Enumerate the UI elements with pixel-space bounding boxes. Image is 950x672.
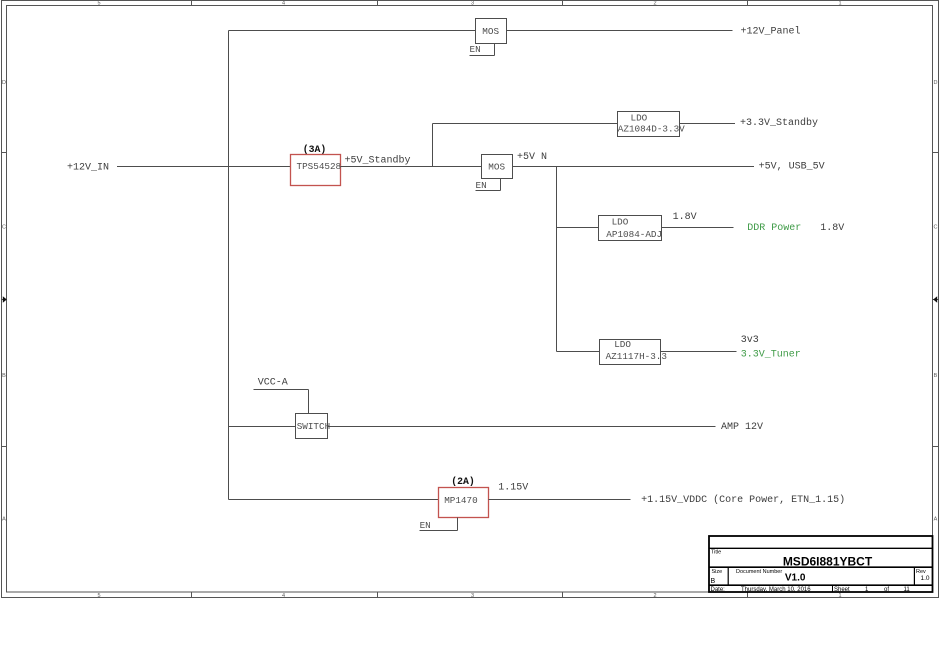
wire MOS 5V output	[513, 166, 755, 168]
zone tick bottom 3/2	[562, 592, 564, 598]
wire AZ1084D output	[680, 123, 736, 125]
wire MOS panel EN stub	[470, 44, 495, 56]
regulator TPS54528	[291, 155, 342, 186]
svg-text:B: B	[2, 373, 6, 379]
svg-text:AP1084-ADJ: AP1084-ADJ	[606, 229, 662, 240]
wire trunk to MOS panel	[229, 30, 476, 32]
svg-text:4: 4	[282, 593, 285, 599]
svg-text:VCC-A: VCC-A	[258, 377, 288, 388]
wire trunk to MP1470	[229, 499, 439, 501]
svg-text:Sheet: Sheet	[834, 587, 850, 593]
svg-text:EN: EN	[420, 520, 431, 531]
svg-text:5: 5	[97, 1, 100, 7]
zone tick bottom 5/4	[191, 592, 193, 598]
wire to LDO AP1084 input	[557, 227, 599, 229]
svg-text:1.8V: 1.8V	[820, 223, 844, 234]
wire SWITCH output	[328, 426, 716, 428]
svg-text:1.15V: 1.15V	[498, 482, 528, 493]
svg-text:+3.3V_Standby: +3.3V_Standby	[740, 117, 818, 129]
svg-text:1.8V: 1.8V	[673, 212, 697, 223]
svg-text:TPS54528: TPS54528	[297, 161, 342, 172]
wire to LDO AZ1117 input	[557, 351, 600, 353]
svg-text:(3A): (3A)	[303, 144, 327, 155]
wire AP1084 output	[662, 227, 734, 229]
wire trunk to SWITCH	[229, 426, 296, 428]
wire MP1470 EN stub	[420, 518, 458, 531]
svg-text:3v3: 3v3	[741, 335, 759, 346]
svg-text:+12V_Panel: +12V_Panel	[741, 26, 801, 38]
svg-text:+5V, USB_5V: +5V, USB_5V	[759, 161, 825, 172]
svg-text:2: 2	[653, 1, 656, 7]
zone tick top 2/1	[747, 1, 749, 6]
svg-text:2: 2	[653, 593, 656, 599]
svg-text:MSD6I881YBCT: MSD6I881YBCT	[783, 555, 873, 569]
switch block SWITCH	[296, 414, 331, 439]
svg-text:1: 1	[838, 593, 841, 599]
zone tick top 5/4	[191, 1, 193, 6]
svg-text:MOS: MOS	[488, 162, 505, 173]
wire VCC-A stub	[254, 390, 309, 414]
zone tick left B/A	[2, 446, 7, 448]
svg-text:AZ1117H-3.3: AZ1117H-3.3	[606, 351, 667, 362]
MOS switch 5V	[482, 155, 513, 179]
svg-text:+5V N: +5V N	[517, 152, 547, 163]
sheet center arrow right	[933, 296, 939, 303]
svg-text:of: of	[884, 587, 889, 593]
svg-text:LDO: LDO	[631, 113, 648, 124]
svg-text:Date:: Date:	[711, 587, 726, 593]
title block frame	[709, 536, 933, 592]
svg-text:5: 5	[97, 593, 100, 599]
MOS switch panel	[476, 19, 507, 44]
wire MOS panel output	[507, 30, 733, 32]
svg-text:4: 4	[282, 1, 285, 7]
svg-text:A: A	[934, 517, 938, 523]
wire TPS54528 to MOS2	[341, 166, 482, 168]
svg-text:Thursday, March 10, 2016: Thursday, March 10, 2016	[741, 587, 811, 593]
wire MP1470 output	[489, 499, 631, 501]
svg-text:LDO: LDO	[614, 339, 631, 350]
svg-text:C: C	[934, 225, 938, 231]
zone tick top 3/2	[562, 1, 564, 6]
svg-text:A: A	[2, 517, 6, 523]
svg-text:1: 1	[838, 1, 841, 7]
svg-text:(2A): (2A)	[451, 476, 475, 487]
regulator MP1470	[439, 488, 489, 518]
svg-text:MOS: MOS	[482, 26, 499, 37]
svg-text:AZ1084D-3.3V: AZ1084D-3.3V	[618, 124, 685, 135]
wire MOS 5V EN stub	[476, 179, 501, 191]
zone tick right B/A	[933, 446, 939, 448]
zone tick left D/C	[2, 152, 7, 154]
svg-text:+12V_IN: +12V_IN	[67, 163, 109, 174]
LDO U-AP1084	[599, 216, 663, 241]
svg-text:11: 11	[904, 587, 911, 593]
svg-text:EN: EN	[470, 44, 481, 55]
zone tick bottom 2/1	[747, 592, 749, 598]
wire to LDO AZ1084D input	[433, 123, 618, 125]
svg-text:SWITCH: SWITCH	[297, 421, 330, 432]
wire +12V_IN input	[117, 166, 291, 168]
svg-text:3: 3	[471, 1, 474, 7]
sheet center arrow left	[2, 296, 7, 303]
LDO U-AZ1117H	[600, 339, 667, 365]
svg-text:D: D	[934, 80, 938, 86]
svg-text:Title: Title	[711, 550, 721, 556]
svg-text:EN: EN	[476, 180, 487, 191]
wire branch up to LDO AZ1084D	[432, 124, 434, 167]
svg-text:+1.15V_VDDC (Core Power, ETN_1: +1.15V_VDDC (Core Power, ETN_1.15)	[641, 494, 845, 506]
svg-text:V1.0: V1.0	[785, 573, 806, 584]
svg-text:1.0: 1.0	[921, 575, 930, 582]
svg-text:3.3V_Tuner: 3.3V_Tuner	[741, 349, 801, 360]
svg-text:+5V_Standby: +5V_Standby	[345, 154, 411, 166]
wire AZ1117 output	[661, 351, 737, 353]
svg-text:D: D	[2, 80, 6, 86]
wire branch down from +5V	[556, 167, 558, 352]
zone tick bottom 4/3	[377, 592, 379, 598]
svg-text:LDO: LDO	[612, 216, 629, 227]
svg-text:AMP 12V: AMP 12V	[721, 422, 763, 433]
svg-text:C: C	[2, 225, 6, 231]
svg-text:MP1470: MP1470	[444, 495, 477, 506]
wire main +12V vertical trunk	[228, 31, 230, 500]
zone tick top 4/3	[377, 1, 379, 6]
svg-text:Document Number: Document Number	[736, 569, 782, 575]
svg-text:3: 3	[471, 593, 474, 599]
zone tick right D/C	[933, 152, 939, 154]
svg-text:Size: Size	[712, 569, 723, 575]
svg-text:DDR Power: DDR Power	[747, 223, 801, 234]
LDO U-AZ1084D	[618, 112, 686, 137]
svg-text:B: B	[934, 373, 938, 379]
svg-text:B: B	[711, 578, 716, 585]
